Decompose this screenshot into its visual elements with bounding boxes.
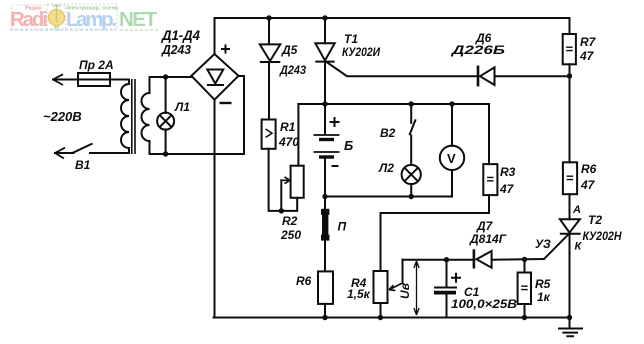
potentiometer R4: [374, 271, 388, 303]
svg-text:R7: R7: [580, 35, 597, 49]
mains arrow top: [52, 74, 63, 85]
capacitor C1: [434, 287, 457, 289]
wire T1 anode: [324, 18, 326, 43]
node lamp L1 bottom: [163, 151, 168, 156]
wire battery plus: [324, 104, 326, 134]
svg-text:К: К: [575, 241, 583, 253]
svg-text:47: 47: [499, 182, 515, 196]
svg-text:1к: 1к: [537, 290, 551, 304]
svg-text:Б: Б: [344, 138, 353, 153]
wire mains bottom lead: [55, 152, 74, 154]
svg-text:В2: В2: [380, 126, 396, 140]
svg-text:Пр 2А: Пр 2А: [79, 58, 114, 72]
resistor R1: [262, 120, 276, 149]
svg-text:Л1: Л1: [174, 100, 190, 114]
wire P jumper to R8: [324, 241, 326, 272]
svg-text:Т2: Т2: [588, 213, 602, 227]
node R5 bottom: [522, 315, 527, 320]
node top bus D5: [266, 15, 271, 20]
wire R4 wiper feed: [402, 260, 404, 283]
jumper P: [322, 209, 328, 241]
Uc dimension arrow: [414, 261, 419, 315]
svg-text:R1: R1: [280, 120, 296, 134]
switch B1 blade: [72, 144, 93, 154]
wire R5 top: [524, 260, 526, 273]
wire secondary top to bridge left: [150, 77, 192, 90]
wire mains top lead with fuse: [53, 79, 129, 81]
svg-text:Uв: Uв: [398, 283, 412, 299]
wire mid bus y196: [325, 196, 452, 198]
svg-text:Lamp.: Lamp.: [66, 8, 117, 31]
svg-text:Д243: Д243: [161, 42, 192, 57]
diode D6: [477, 66, 480, 87]
wire R6 bottom to T2 anode: [569, 194, 571, 219]
wire R3 top: [488, 104, 490, 164]
node B2 top: [409, 101, 414, 106]
wire bottom bus: [214, 317, 570, 319]
lamp L1: [157, 113, 174, 130]
svg-text:250: 250: [280, 228, 301, 242]
ground: [558, 318, 583, 337]
wire secondary bottom to bridge right: [150, 143, 245, 154]
WIRES-GROUP: [53, 18, 570, 318]
svg-text:R6: R6: [581, 162, 597, 176]
R4 wiper arrow: [389, 283, 403, 291]
wire R4 bottom: [380, 303, 382, 318]
mains arrow bottom: [55, 148, 65, 159]
svg-text:~220В: ~220В: [43, 109, 82, 124]
wire R5 bottom: [524, 304, 526, 318]
wire lamp L2 upper: [410, 136, 412, 166]
wire top bus: [215, 18, 570, 54]
wire lamp L1 bottom: [165, 129, 167, 154]
node R1 R2: [279, 208, 284, 213]
wire D6 cathode to R7 node: [495, 75, 570, 77]
svg-text:А: А: [572, 204, 581, 216]
watermark logo RadioLamp.NET: [10, 4, 158, 31]
wire C1 top: [446, 260, 448, 287]
wire R2 wiper to node: [280, 180, 282, 211]
svg-text:Radi: Radi: [10, 8, 48, 31]
diode D5: [260, 44, 281, 61]
wire R8 bottom: [324, 304, 326, 318]
node ground: [567, 315, 572, 320]
svg-text:R2: R2: [282, 214, 298, 228]
node T1 cathode battery: [322, 101, 327, 106]
wire control bus y104: [298, 103, 489, 105]
node R8 bottom: [322, 315, 327, 320]
wire T2 cathode to ground: [569, 234, 571, 318]
node top bus T1: [322, 15, 327, 20]
node lamp L1 top: [163, 74, 168, 79]
battery plus sign: [330, 117, 340, 127]
wire R7 bottom to R6: [569, 64, 571, 162]
resistor R7: [563, 34, 576, 64]
svg-text:Д1-Д4: Д1-Д4: [161, 27, 200, 43]
wire D5 cathode to R1: [268, 62, 270, 120]
wire battery minus: [324, 158, 326, 197]
bridge internal diode: [207, 70, 223, 84]
wire T1 cathode: [324, 62, 326, 105]
C1 plus sign: [451, 273, 461, 283]
wire D5 anode: [268, 18, 270, 44]
wire switch B1 to primary: [90, 152, 129, 154]
svg-text:V: V: [447, 151, 456, 166]
resistor R6: [563, 162, 577, 194]
rheostat R2: [291, 166, 304, 198]
resistor R5: [518, 273, 531, 305]
battery B plates: [314, 134, 340, 136]
voltmeter V: [440, 146, 464, 170]
resistor R3: [483, 164, 497, 195]
svg-text:R6: R6: [296, 274, 312, 288]
svg-text:NET: NET: [119, 8, 157, 31]
battery minus sign: [332, 165, 339, 167]
LABELS-GROUP: [43, 27, 622, 311]
wire switch B2 stub: [410, 104, 412, 123]
svg-text:R5: R5: [535, 277, 551, 291]
bridge rectifier D1-D4 diamond: [191, 54, 238, 100]
svg-text:100,0×25В: 100,0×25В: [451, 297, 517, 311]
resistor R8: [318, 271, 333, 304]
JUNCTION-DOTS: [163, 15, 572, 320]
wire Uc bus y260: [403, 259, 473, 261]
wire R1 bottom to node: [269, 149, 282, 211]
node R4 bottom: [378, 315, 383, 320]
fuse Pr2A: [78, 73, 110, 86]
transformer core: [131, 79, 133, 154]
node R5 top: [522, 257, 527, 262]
node battery bottom: [322, 194, 327, 199]
wire R2 top: [297, 104, 299, 166]
svg-text:КУ202Н: КУ202Н: [583, 229, 622, 243]
svg-text:УЗ: УЗ: [535, 237, 551, 251]
wire D7 anode to gate bend: [492, 258, 544, 261]
svg-text:Т1: Т1: [344, 32, 358, 46]
wire voltmeter top: [451, 104, 453, 146]
svg-text:КУ202И: КУ202И: [342, 45, 380, 59]
svg-text:47: 47: [580, 178, 596, 192]
transformer primary coil: [121, 80, 129, 154]
svg-text:Л2: Л2: [378, 161, 394, 175]
bridge plus sign: [221, 45, 230, 54]
wire T2 gate diagonal: [544, 234, 569, 259]
svg-text:47: 47: [579, 49, 595, 63]
svg-text:П: П: [338, 220, 347, 234]
wire lamp L1 top: [165, 77, 167, 113]
svg-text:R3: R3: [500, 165, 516, 179]
zener D7: [473, 249, 476, 268]
node voltmeter top: [449, 101, 454, 106]
svg-text:В1: В1: [75, 158, 91, 172]
thyristor T1: [315, 43, 334, 60]
svg-text:1,5к: 1,5к: [347, 287, 371, 301]
svg-text:470: 470: [278, 135, 299, 149]
svg-text:Д814Г: Д814Г: [469, 232, 507, 246]
thyristor T2: [560, 219, 580, 232]
bridge minus sign: [220, 102, 232, 104]
lamp L2: [402, 165, 421, 184]
wire C1 bottom: [446, 294, 448, 318]
svg-text:Д5: Д5: [281, 43, 298, 57]
svg-text:Д7: Д7: [476, 219, 494, 233]
wire lamp L2 lower: [410, 184, 412, 197]
node lamp L2 bottom: [409, 194, 414, 199]
node C1 top: [444, 257, 449, 262]
node D6 R7: [567, 73, 572, 78]
wire bridge right corner leg: [239, 76, 245, 154]
transformer secondary coil: [142, 77, 150, 154]
svg-text:Д226Б: Д226Б: [451, 43, 506, 57]
wire voltmeter bottom: [451, 170, 453, 197]
wire R3 bottom to R4 top: [381, 195, 490, 271]
wire R2 bottom to node: [281, 198, 297, 211]
svg-text:Д243: Д243: [279, 63, 306, 77]
wire T1 gate to D6: [327, 62, 479, 76]
wire bridge minus vertical: [214, 100, 216, 318]
switch B2 blade: [409, 119, 415, 135]
wire P jumper top: [324, 197, 326, 210]
COMPONENTS-GROUP: [52, 34, 583, 336]
